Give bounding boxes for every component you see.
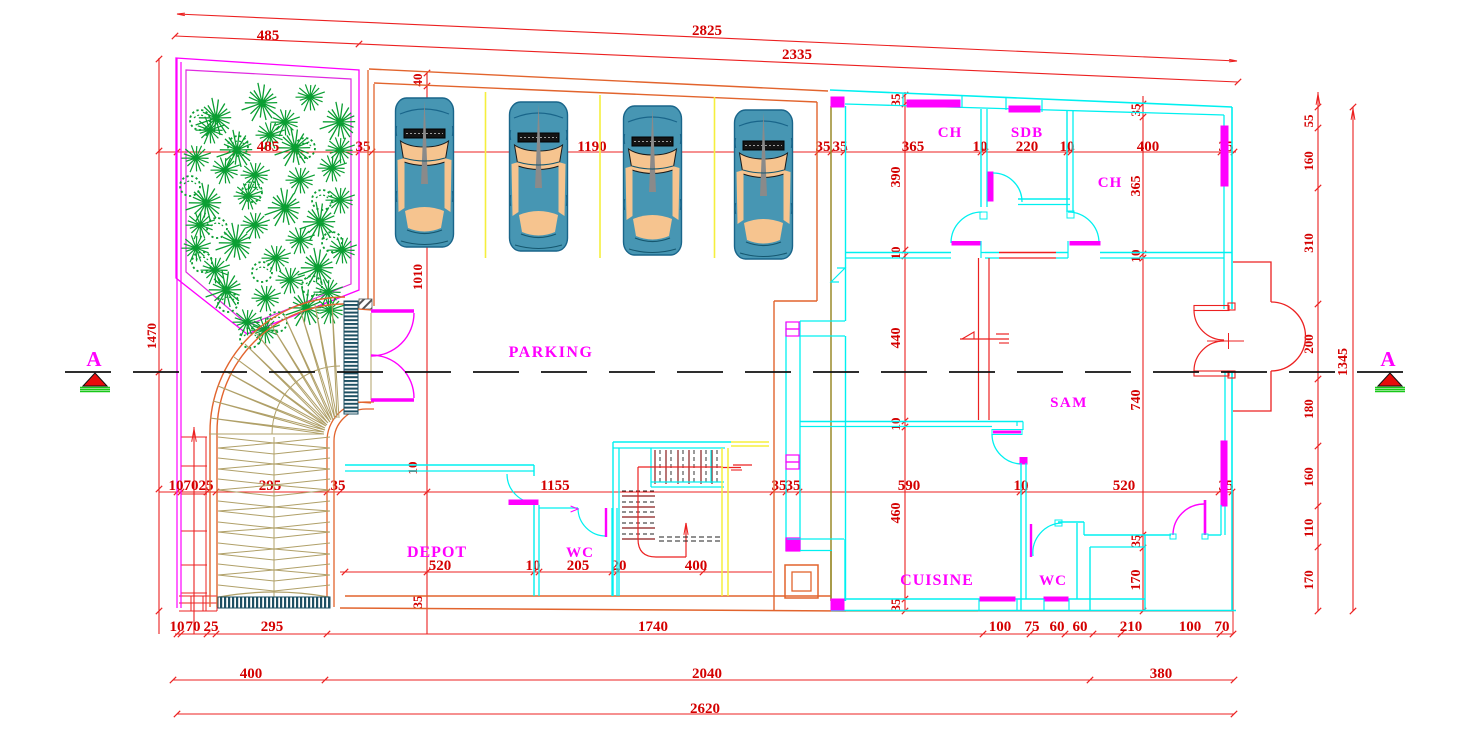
svg-text:35: 35	[1128, 534, 1143, 548]
bottom window frames	[978, 599, 980, 611]
garden trees	[196, 98, 232, 136]
corridor magenta windows	[786, 322, 799, 329]
house right wall lower	[1231, 371, 1233, 611]
svg-text:160: 160	[1301, 151, 1316, 171]
svg-text:DEPOT: DEPOT	[407, 544, 467, 561]
svg-text:60: 60	[1073, 619, 1088, 635]
svg-text:WC: WC	[566, 545, 594, 561]
SDB door leaf and arc	[988, 172, 993, 201]
left red wall line	[205, 437, 207, 611]
wall y535 right part	[1084, 534, 1171, 536]
stair direction arrow	[685, 523, 687, 557]
svg-text:390: 390	[889, 167, 904, 188]
car 3	[624, 106, 682, 255]
wc1 door wall	[539, 507, 578, 509]
wall break symbol	[831, 268, 845, 282]
orange corridor wall lower x774	[773, 301, 775, 611]
svg-text:1470: 1470	[144, 323, 159, 349]
svg-text:590: 590	[898, 478, 921, 494]
garage door hatch strip	[344, 301, 358, 414]
bedroom dividing wall y252 left	[845, 252, 951, 254]
svg-text:35: 35	[786, 478, 801, 494]
bedroom door left	[951, 212, 982, 243]
ramp inner wall	[327, 402, 374, 607]
svg-text:295: 295	[261, 619, 284, 635]
svg-text:1155: 1155	[540, 478, 569, 494]
entrance door arcs	[1194, 310, 1224, 340]
corridor kitchen walls	[787, 538, 844, 540]
yellow stair lines	[721, 448, 723, 596]
orange column bottom of corridor	[785, 565, 818, 598]
main dimension line y152	[159, 151, 1236, 153]
svg-text:70: 70	[1215, 619, 1230, 635]
stair treads upper flight	[655, 450, 712, 484]
SAM door sill and arc	[992, 430, 1022, 435]
svg-text:110: 110	[1301, 519, 1316, 538]
svg-text:25: 25	[204, 619, 219, 635]
dimension line y680	[173, 679, 1234, 681]
svg-text:365: 365	[1129, 176, 1144, 197]
house left wall cyan inner	[845, 106, 847, 321]
ramp mid arc	[272, 366, 340, 434]
house right wall upper	[1231, 107, 1233, 309]
svg-text:485: 485	[257, 28, 280, 44]
svg-text:520: 520	[1113, 478, 1136, 494]
dimension line y634	[175, 633, 1233, 635]
svg-text:10: 10	[526, 558, 541, 574]
hatched wall block at gate	[359, 299, 372, 309]
svg-text:10: 10	[888, 418, 903, 431]
pedestrian gate double door	[371, 309, 414, 313]
svg-text:400: 400	[1137, 139, 1160, 155]
svg-text:55: 55	[1301, 114, 1316, 128]
left vertical dimension 1470	[158, 58, 160, 634]
svg-text:180: 180	[1301, 399, 1316, 419]
entrance porch outline	[1233, 262, 1271, 302]
svg-text:A: A	[86, 347, 102, 371]
svg-text:310: 310	[1301, 233, 1316, 253]
svg-text:10: 10	[1128, 250, 1143, 263]
top wall windows	[907, 100, 960, 107]
svg-text:100: 100	[989, 619, 1012, 635]
wc1 right wall	[611, 508, 613, 596]
depot right wall	[533, 465, 535, 476]
magenta window top left corner	[831, 97, 844, 107]
svg-text:200: 200	[1301, 334, 1316, 354]
svg-text:60: 60	[1050, 619, 1065, 635]
svg-text:2620: 2620	[690, 701, 720, 717]
ramp tread chevrons	[218, 437, 330, 597]
vertical dimension x1143	[1142, 96, 1144, 611]
dimension line 2825 top	[177, 14, 1237, 61]
svg-text:365: 365	[902, 139, 925, 155]
house top wall inner	[845, 104, 1224, 115]
svg-text:25: 25	[199, 478, 214, 494]
ramp tread crossing diagonals	[218, 443, 330, 575]
dimension line y492	[159, 491, 1233, 493]
svg-text:440: 440	[889, 328, 904, 349]
svg-text:A: A	[1380, 347, 1396, 371]
ramp outer wall	[210, 297, 345, 607]
svg-text:170: 170	[1129, 570, 1144, 591]
stair treads left flight	[622, 496, 655, 539]
dimension line 485-2335	[175, 36, 1238, 82]
house bottom wall	[844, 598, 1145, 600]
orange garden-side wall	[367, 70, 369, 300]
garden inner magenta boundary	[186, 70, 351, 325]
right vertical dimension stack	[1317, 92, 1319, 611]
svg-text:10: 10	[169, 478, 184, 494]
interior staircase box	[613, 441, 731, 443]
house left wall olive outer	[830, 106, 832, 601]
closet walls	[1089, 547, 1091, 611]
svg-text:740: 740	[1129, 390, 1144, 411]
pedestrian gate closed line	[370, 313, 372, 400]
svg-text:70: 70	[186, 619, 201, 635]
bedroom dividing wall y252 mid	[985, 252, 999, 254]
stair landing	[651, 481, 724, 483]
stair tread right edge	[710, 450, 712, 483]
red wall segment y252	[999, 252, 1056, 254]
svg-text:35: 35	[888, 598, 903, 612]
svg-text:210: 210	[1120, 619, 1143, 635]
level symbol SAM	[962, 332, 974, 339]
section centerline A-A	[65, 371, 1410, 373]
ramp fan lines	[209, 303, 339, 434]
car 4	[735, 110, 793, 259]
red line under bottom windows	[978, 610, 1233, 612]
top wall window frames	[902, 94, 904, 106]
svg-text:35: 35	[816, 139, 831, 155]
WC right wall	[1076, 523, 1078, 599]
svg-text:35: 35	[331, 478, 346, 494]
SDB bottom wall	[1018, 198, 1070, 200]
svg-text:1345: 1345	[1336, 348, 1351, 376]
svg-text:PARKING: PARKING	[509, 344, 594, 361]
entrance door sills	[1194, 306, 1229, 311]
svg-text:SAM: SAM	[1050, 395, 1088, 411]
svg-text:35: 35	[888, 93, 903, 107]
svg-text:2040: 2040	[692, 666, 722, 682]
side entrance passage	[800, 320, 845, 322]
orange building bottom wall	[345, 595, 831, 597]
car 1	[396, 98, 454, 247]
interior wall CH-SDB	[980, 109, 982, 207]
orange gate connectors	[358, 309, 371, 310]
yellow parking dividers	[485, 92, 487, 258]
SAM bottom wall	[800, 421, 1023, 423]
right vertical dimension 1345	[1352, 107, 1354, 611]
svg-text:100: 100	[1179, 619, 1202, 635]
car 2	[510, 102, 568, 251]
left property magenta line	[176, 58, 178, 608]
right wall stub above door	[1220, 505, 1222, 535]
svg-text:400: 400	[240, 666, 263, 682]
corridor cyan wall x800	[799, 321, 801, 550]
svg-text:CH: CH	[1098, 175, 1123, 191]
entrance center cross	[1207, 340, 1244, 342]
bedroom dividing wall y252 far right	[1100, 252, 1232, 254]
svg-text:CUISINE: CUISINE	[900, 572, 974, 589]
svg-text:10: 10	[405, 462, 420, 475]
garden bushes	[228, 136, 248, 156]
interior wall SDB-CH2	[1066, 110, 1068, 212]
svg-text:1010: 1010	[410, 264, 425, 290]
svg-text:400: 400	[685, 558, 708, 574]
bottom left red grid	[179, 595, 217, 597]
svg-text:485: 485	[257, 139, 280, 155]
svg-text:10: 10	[170, 619, 185, 635]
orange corridor wall upper x817	[816, 102, 818, 301]
bedroom dividing wall y252 right	[1056, 252, 1068, 254]
svg-text:SDB: SDB	[1011, 125, 1043, 141]
orange parking top wall line 2	[374, 83, 817, 102]
WC top wall	[1058, 521, 1084, 523]
svg-text:WC: WC	[1039, 573, 1067, 589]
hall red wall lines	[978, 258, 980, 420]
svg-text:2825: 2825	[692, 23, 722, 39]
dashed guide lines stair	[659, 536, 721, 538]
right room door magenta	[1173, 504, 1204, 535]
stair level symbol	[733, 464, 752, 466]
kitchen-wc wall x1021	[1020, 463, 1022, 611]
svg-text:10: 10	[973, 139, 988, 155]
svg-text:35: 35	[410, 595, 425, 609]
svg-text:220: 220	[1016, 139, 1039, 155]
bedroom door right	[1068, 212, 1099, 243]
garden outer magenta boundary	[176, 58, 359, 334]
dimension line y572 depot	[340, 571, 772, 573]
orange corridor step y301	[774, 300, 817, 302]
svg-text:CH: CH	[938, 125, 963, 141]
svg-text:1190: 1190	[577, 139, 606, 155]
house top wall outer	[830, 90, 1232, 107]
right wall magenta windows	[1221, 126, 1228, 186]
left red extension x217	[216, 437, 218, 611]
svg-text:160: 160	[1301, 467, 1316, 487]
corridor cyan wall x786	[785, 322, 787, 551]
svg-text:380: 380	[1150, 666, 1173, 682]
svg-text:460: 460	[889, 503, 904, 524]
left inner vertical dimension with rungs	[193, 427, 195, 634]
svg-text:170: 170	[1301, 570, 1316, 590]
svg-text:35: 35	[1128, 103, 1143, 117]
svg-text:75: 75	[1025, 619, 1040, 635]
depot door arc	[507, 474, 536, 503]
WC door	[1030, 524, 1032, 557]
svg-text:1740: 1740	[638, 619, 668, 635]
vertical dimension x427	[426, 73, 428, 634]
dimension line y714 total 2620	[177, 713, 1234, 715]
svg-text:70: 70	[184, 478, 199, 494]
vertical dimension x905	[904, 92, 906, 611]
bottom wall magenta windows	[831, 599, 844, 610]
svg-text:2335: 2335	[782, 47, 812, 63]
ramp bottom tread arc	[219, 592, 329, 597]
depot top wall	[345, 464, 534, 466]
stair rail red	[638, 467, 686, 557]
ramp bottom hatch band	[218, 597, 330, 608]
orange parking top wall line 1	[369, 69, 828, 91]
red extension line right x1233	[1232, 490, 1234, 634]
